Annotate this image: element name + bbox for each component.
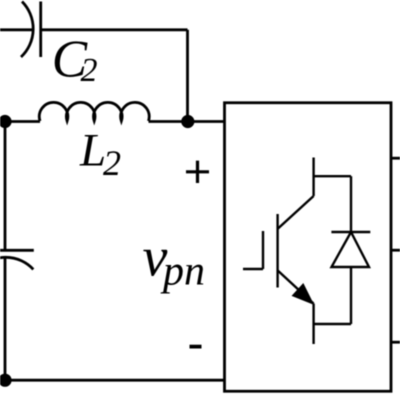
stub right 1 — [391, 157, 400, 160]
wire top-left to C2 — [0, 28, 32, 31]
diode D1 anode lead — [350, 267, 352, 324]
wire collector to diode cathode — [314, 175, 351, 177]
wire left rail upper — [4, 122, 7, 250]
capacitor C2 curved plate — [21, 2, 33, 58]
IGBT Q1 collector diagonal — [278, 196, 314, 229]
stub right 2 — [391, 249, 400, 252]
IGBT Q1 collector stub — [312, 158, 314, 197]
IGBT Q1 emitter arrowhead — [292, 284, 313, 304]
capacitor C2 straight plate — [39, 2, 42, 58]
IGBT Q1 main bar — [276, 214, 278, 288]
wire bottom to box — [5, 379, 225, 382]
diode D1 triangle — [332, 232, 370, 267]
node N dot — [0, 374, 12, 387]
wire left rail lower — [4, 259, 7, 381]
IGBT Q1 gate bar — [262, 231, 264, 269]
capacitor C1 straight plate — [0, 249, 34, 252]
wire inductor to node P — [149, 120, 225, 123]
diode D1 cathode bar — [331, 231, 370, 233]
minus sign — [190, 345, 202, 349]
diode D1 cathode lead — [350, 176, 352, 232]
converter box — [225, 103, 392, 392]
wire emitter to diode anode — [314, 323, 351, 325]
IGBT Q1 emitter lead — [312, 304, 314, 344]
node dot left — [0, 115, 12, 128]
plus sign — [186, 161, 209, 183]
stub right 3 — [391, 341, 400, 344]
svg-text:2: 2 — [81, 52, 98, 89]
svg-text:pn: pn — [160, 249, 205, 295]
IGBT Q1 gate lead — [243, 268, 263, 270]
wire C2 to top-right corner — [41, 28, 188, 31]
IGBT Q1 emitter diagonal — [278, 270, 314, 303]
capacitor C1 curved plate — [0, 257, 33, 269]
inductor L2 — [39, 102, 149, 121]
wire down from C2 to node P — [186, 30, 189, 122]
svg-text:2: 2 — [103, 143, 121, 183]
wire left node to inductor — [5, 120, 40, 123]
node P dot — [181, 115, 194, 128]
